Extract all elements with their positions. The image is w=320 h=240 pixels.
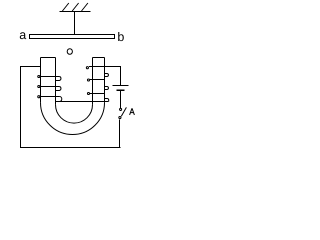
left coil turn 1 front wire xyxy=(40,76,60,78)
left coil turn 2 right bend xyxy=(56,87,61,91)
right coil turn 2 loop xyxy=(87,78,90,81)
ceiling support line xyxy=(60,11,91,13)
switch lower terminal xyxy=(118,116,121,119)
right coil turn 3 loop xyxy=(87,92,90,95)
U-core right arm inner edge xyxy=(92,58,94,105)
right coil back loop 2 xyxy=(105,87,109,90)
wire switch to bottom xyxy=(119,119,121,147)
coil connecting wire (left coil to right coil) xyxy=(56,101,109,103)
right coil turn 3 front wire xyxy=(90,93,105,95)
battery short plate xyxy=(117,89,125,91)
wire top-left (left side to coil) xyxy=(21,66,41,68)
bar ab left edge xyxy=(29,34,31,39)
wire bottom xyxy=(21,147,121,149)
bar ab right edge xyxy=(114,34,116,39)
U-core left arm outer edge xyxy=(40,58,42,103)
switch upper terminal xyxy=(119,108,122,111)
bar ab top edge xyxy=(30,34,115,36)
left coil turn 2 loop xyxy=(37,85,40,88)
label A xyxy=(130,108,135,115)
wire battery to switch xyxy=(120,91,122,108)
left coil turn 3 front wire xyxy=(40,96,60,98)
left coil turn 2 front wire xyxy=(40,86,60,88)
wire right side upper (corner to battery) xyxy=(120,66,122,85)
wire left side xyxy=(20,66,22,148)
svg-text:b: b xyxy=(117,30,124,44)
U-core right arm outer edge xyxy=(104,58,106,103)
switch blade (open) xyxy=(121,107,126,116)
U-core left arm inner edge xyxy=(55,58,57,105)
left coil turn 1 loop xyxy=(37,75,40,78)
U-core outer bend xyxy=(41,103,105,135)
U-core inner bend xyxy=(56,105,93,124)
right coil turn 1 loop xyxy=(86,66,89,69)
right coil turn 1 front wire (continues to battery corner) xyxy=(89,66,121,68)
U-core right arm top edge xyxy=(93,57,105,59)
U-core left arm top edge xyxy=(41,57,56,59)
right coil turn 2 front wire xyxy=(90,79,105,81)
ceiling hatch tick 1 xyxy=(62,3,68,11)
ceiling hatch tick 2 xyxy=(72,3,78,11)
bar ab bottom edge xyxy=(30,38,115,40)
ceiling hatch tick 3 xyxy=(82,3,88,11)
left coil turn 3 right bend xyxy=(56,97,62,102)
right coil back loop 3 (joins connecting wire) xyxy=(105,99,109,102)
left coil turn 1 right bend xyxy=(56,77,61,81)
label O xyxy=(67,49,72,55)
hanger wire xyxy=(74,12,76,35)
left coil turn 3 loop xyxy=(37,95,40,98)
battery long plate xyxy=(113,85,129,87)
right coil back loop 1 xyxy=(105,74,109,77)
svg-text:a: a xyxy=(19,28,26,42)
